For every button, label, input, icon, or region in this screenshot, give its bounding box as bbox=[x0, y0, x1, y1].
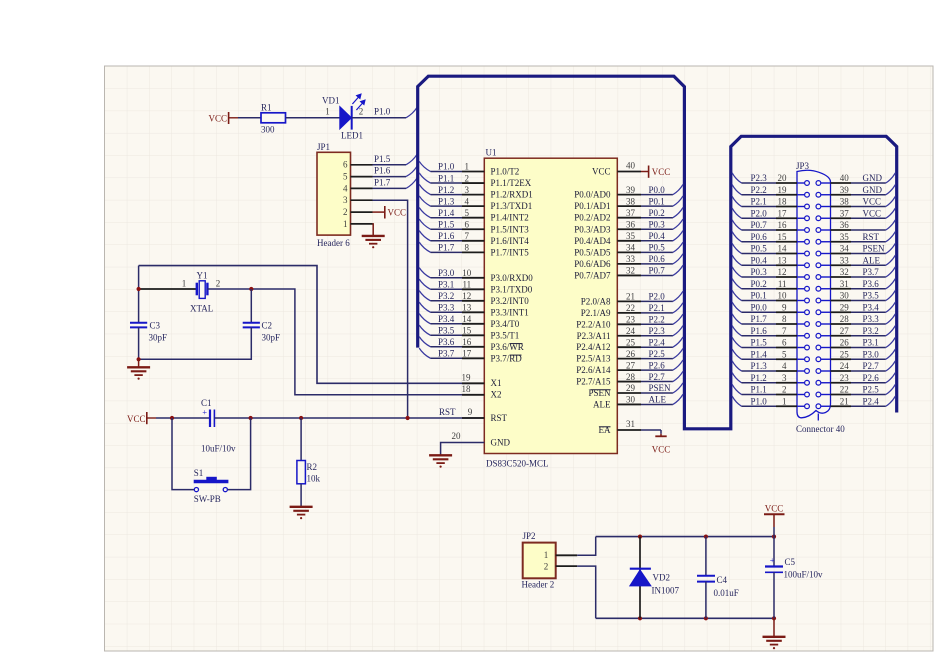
wire U1.11 bbox=[431, 288, 463, 290]
pin U1.21 bbox=[617, 300, 641, 302]
JP3 row 9 contacts bbox=[797, 276, 805, 278]
wire Y1 to C2/X2 bbox=[207, 289, 484, 395]
op-amp/IC U1 DS83C520-MCL body bbox=[484, 158, 617, 453]
node S1 left / rail bbox=[170, 416, 174, 420]
wire bus entry U1.27 bbox=[673, 360, 683, 370]
wire JP3.8 bbox=[742, 323, 777, 325]
wire bus entry JP3.24 bbox=[886, 361, 896, 371]
pin JP3.38 bbox=[831, 206, 852, 208]
svg-text:Connector 40: Connector 40 bbox=[796, 424, 845, 434]
wire JP3.32 bbox=[851, 276, 886, 278]
svg-text:P0.4/AD4: P0.4/AD4 bbox=[574, 236, 611, 246]
svg-text:P1.0: P1.0 bbox=[751, 396, 768, 406]
svg-text:2: 2 bbox=[782, 385, 787, 395]
wire bus entry JP3.25 bbox=[886, 349, 896, 359]
wire JP3.39 bbox=[851, 194, 886, 196]
pin JP2.1 bbox=[556, 554, 578, 556]
svg-text:ALE: ALE bbox=[593, 399, 611, 409]
wire bus entry U1.35 bbox=[673, 231, 683, 241]
svg-text:P1.5/INT3: P1.5/INT3 bbox=[491, 224, 530, 234]
wire U1.21 bbox=[641, 300, 673, 302]
svg-text:RST: RST bbox=[863, 232, 880, 242]
svg-text:1: 1 bbox=[544, 550, 549, 560]
svg-text:16: 16 bbox=[462, 337, 472, 347]
pin U1.6 bbox=[462, 228, 484, 230]
svg-text:P0.6/AD6: P0.6/AD6 bbox=[574, 259, 611, 269]
svg-text:P1.6: P1.6 bbox=[438, 231, 455, 241]
svg-text:39: 39 bbox=[626, 185, 636, 195]
svg-text:IN1007: IN1007 bbox=[652, 586, 680, 596]
wire bus entry JP3.33 bbox=[886, 255, 896, 265]
pin JP3.39 bbox=[831, 194, 852, 196]
svg-text:P3.5/T1: P3.5/T1 bbox=[491, 330, 520, 340]
node Y1 pin1 / C3 bbox=[137, 287, 141, 291]
wire bus entry U1.37 bbox=[673, 208, 683, 218]
wire VCC to R1 bbox=[238, 117, 261, 119]
svg-text:P0.1: P0.1 bbox=[649, 196, 665, 206]
svg-text:P3.2: P3.2 bbox=[438, 291, 454, 301]
pin JP3.13 bbox=[776, 264, 797, 266]
pin JP3.9 bbox=[776, 311, 797, 313]
svg-text:300: 300 bbox=[261, 124, 275, 134]
pin U1.23 bbox=[617, 323, 641, 325]
wire bus entry U1.10 bbox=[419, 268, 430, 278]
svg-text:P1.1: P1.1 bbox=[438, 173, 454, 183]
pin JP3.15 bbox=[776, 241, 797, 243]
pin U1.28 bbox=[617, 381, 641, 383]
svg-text:P3.3: P3.3 bbox=[863, 314, 880, 324]
svg-text:27: 27 bbox=[840, 326, 850, 336]
svg-text:23: 23 bbox=[626, 315, 636, 325]
wire JP3.23 bbox=[851, 382, 886, 384]
pin U1.31 EA bbox=[617, 429, 641, 431]
wire bus entry JP3.21 bbox=[886, 396, 896, 406]
svg-text:25: 25 bbox=[840, 349, 850, 359]
svg-text:P0.5: P0.5 bbox=[751, 244, 768, 254]
wire bus entry U1.36 bbox=[673, 219, 683, 229]
wire U1.1 bbox=[431, 171, 463, 173]
JP3 row 10 contacts bbox=[797, 288, 805, 290]
wire JP1.5 (net P1.6) bbox=[373, 176, 407, 178]
node JP1.3 / rail bbox=[406, 416, 410, 420]
svg-text:P2.5/A13: P2.5/A13 bbox=[576, 354, 611, 364]
wire gnd drop bottom right bbox=[773, 618, 775, 636]
svg-text:P3.5: P3.5 bbox=[438, 326, 455, 336]
svg-text:P1.5: P1.5 bbox=[438, 219, 455, 229]
svg-text:P0.3: P0.3 bbox=[751, 267, 768, 277]
wire bus entry JP3.12 bbox=[732, 267, 741, 277]
ground U1.20 bbox=[429, 455, 452, 467]
svg-text:26: 26 bbox=[840, 338, 850, 348]
svg-text:P0.1: P0.1 bbox=[751, 291, 767, 301]
wire JP3.34 bbox=[851, 253, 886, 255]
bus (U1 and JP3 harness) bbox=[418, 76, 897, 429]
wire bus entry U1.17 bbox=[419, 348, 430, 358]
wire R2 to gnd bbox=[300, 484, 302, 507]
svg-text:36: 36 bbox=[626, 219, 636, 229]
svg-text:10uF/10v: 10uF/10v bbox=[201, 443, 236, 453]
wire JP3.6 bbox=[742, 347, 777, 349]
pin U1.9 RST bbox=[462, 417, 484, 419]
wire JP3.21 bbox=[851, 405, 886, 407]
wire bus entry JP3.30 bbox=[886, 290, 896, 300]
wire bus entry U1.5 bbox=[419, 208, 430, 218]
pin U1.12 bbox=[462, 300, 484, 302]
svg-text:VCC: VCC bbox=[652, 445, 671, 455]
pin U1.33 bbox=[617, 263, 641, 265]
svg-text:P0.7/AD7: P0.7/AD7 bbox=[574, 270, 611, 280]
wire bus entry JP3.22 bbox=[886, 384, 896, 394]
svg-text:P1.6: P1.6 bbox=[751, 326, 768, 336]
svg-text:P2.3: P2.3 bbox=[751, 173, 768, 183]
svg-text:P0.2: P0.2 bbox=[649, 208, 665, 218]
svg-text:P0.0: P0.0 bbox=[649, 185, 666, 195]
wire bus entry JP3.8 bbox=[732, 314, 741, 324]
svg-text:37: 37 bbox=[626, 208, 636, 218]
pin JP3.3 bbox=[776, 382, 797, 384]
svg-text:R2: R2 bbox=[307, 462, 318, 472]
wire bus entry JP3.36 bbox=[886, 220, 896, 230]
wire JP3.14 bbox=[742, 253, 777, 255]
pin JP3.40 bbox=[831, 182, 852, 184]
wire U1.8 bbox=[431, 251, 463, 253]
pin JP1.2 bbox=[351, 211, 373, 213]
node C3/C2 gnd rail bbox=[137, 357, 141, 361]
wire U1.23 bbox=[641, 323, 673, 325]
pin JP3.26 bbox=[831, 347, 852, 349]
pin U1.10 bbox=[462, 277, 484, 279]
svg-text:P2.6: P2.6 bbox=[863, 373, 880, 383]
capacitor C3 bbox=[130, 322, 147, 324]
svg-text:8: 8 bbox=[465, 243, 470, 253]
svg-text:P1.0/T2: P1.0/T2 bbox=[491, 167, 520, 177]
wire bus entry JP3.4 bbox=[732, 361, 741, 371]
svg-text:P0.0: P0.0 bbox=[751, 302, 768, 312]
svg-text:22: 22 bbox=[840, 385, 849, 395]
svg-text:+: + bbox=[202, 407, 207, 417]
svg-text:18: 18 bbox=[462, 384, 472, 394]
svg-text:P1.6: P1.6 bbox=[374, 166, 391, 176]
wire bus entry U1.29 bbox=[673, 383, 683, 393]
wire bus entry U1.14 bbox=[419, 314, 430, 324]
pin U1.38 bbox=[617, 205, 641, 207]
wire JP3.18 bbox=[742, 206, 777, 208]
wire bus entry JP3.17 bbox=[732, 208, 741, 218]
wire bus entry U1.26 bbox=[673, 348, 683, 358]
wire JP3.20 bbox=[742, 182, 777, 184]
wire bus entry JP3.16 bbox=[732, 220, 741, 230]
pin JP3.10 bbox=[776, 300, 797, 302]
pin U1.11 bbox=[462, 288, 484, 290]
svg-text:5: 5 bbox=[343, 172, 348, 182]
svg-text:13: 13 bbox=[778, 255, 788, 265]
wire JP3.30 bbox=[851, 300, 886, 302]
wire JP1.6 (net P1.5) bbox=[373, 164, 407, 166]
wire bus entry JP3.9 bbox=[732, 302, 741, 312]
node VD2 top bbox=[638, 535, 642, 539]
wire bus entry U1.16 bbox=[419, 337, 430, 347]
svg-text:X2: X2 bbox=[491, 390, 502, 400]
wire JP3.27 bbox=[851, 335, 886, 337]
wire U1.33 bbox=[641, 263, 673, 265]
JP3 row 19 contacts bbox=[797, 394, 805, 396]
pin U1.36 bbox=[617, 228, 641, 230]
wire U1.5 bbox=[431, 217, 463, 219]
svg-text:VCC: VCC bbox=[765, 503, 784, 513]
svg-text:PSEN: PSEN bbox=[863, 244, 886, 254]
wire bus entry JP3.38 bbox=[886, 196, 896, 206]
svg-text:P3.7: P3.7 bbox=[438, 349, 455, 359]
node R2 / rail bbox=[299, 416, 303, 420]
svg-text:0.01uF: 0.01uF bbox=[714, 588, 739, 598]
svg-text:GND: GND bbox=[863, 185, 883, 195]
wire JP3.36 bbox=[851, 229, 886, 231]
svg-text:29: 29 bbox=[840, 302, 850, 312]
svg-text:2: 2 bbox=[343, 207, 348, 217]
svg-text:8: 8 bbox=[782, 314, 787, 324]
wire bus entry JP3.3 bbox=[732, 373, 741, 383]
wire U1.35 bbox=[641, 240, 673, 242]
svg-text:VCC: VCC bbox=[863, 208, 882, 218]
wire JP1.4 (net P1.7) bbox=[373, 187, 407, 189]
svg-text:VCC: VCC bbox=[208, 113, 227, 123]
diode VD2 bbox=[639, 537, 641, 619]
pin JP3.6 bbox=[776, 347, 797, 349]
svg-text:P3.3: P3.3 bbox=[438, 303, 455, 313]
svg-text:P0.3/AD3: P0.3/AD3 bbox=[574, 224, 611, 234]
svg-text:P1.6/INT4: P1.6/INT4 bbox=[491, 236, 530, 246]
svg-text:P2.0: P2.0 bbox=[751, 208, 768, 218]
wire bus entry U1.25 bbox=[673, 337, 683, 347]
svg-text:32: 32 bbox=[626, 266, 635, 276]
wire U1.38 bbox=[641, 205, 673, 207]
svg-text:P3.1: P3.1 bbox=[863, 338, 879, 348]
svg-text:1: 1 bbox=[325, 106, 330, 116]
pin JP3.28 bbox=[831, 323, 852, 325]
wire bus entry JP3.10 bbox=[732, 290, 741, 300]
wire U1.22 bbox=[641, 312, 673, 314]
wire U1.32 bbox=[641, 274, 673, 276]
wire bus entry JP3.39 bbox=[886, 185, 896, 195]
pin JP1.6 bbox=[351, 164, 373, 166]
JP3 row 7 contacts bbox=[797, 253, 805, 255]
pin JP3.17 bbox=[776, 217, 797, 219]
svg-text:26: 26 bbox=[626, 349, 636, 359]
svg-text:34: 34 bbox=[840, 244, 850, 254]
pin JP1.3 bbox=[351, 199, 373, 201]
svg-text:C2: C2 bbox=[262, 320, 273, 330]
wire bus entry JP3.11 bbox=[732, 279, 741, 289]
wire U1.6 bbox=[431, 228, 463, 230]
svg-text:P2.0/A8: P2.0/A8 bbox=[581, 296, 611, 306]
svg-text:P0.7: P0.7 bbox=[649, 266, 666, 276]
svg-text:1: 1 bbox=[465, 162, 470, 172]
wire bus entry U1.3 bbox=[419, 184, 430, 194]
wire C2 top bbox=[250, 289, 252, 323]
pin JP3.2 bbox=[776, 394, 797, 396]
svg-text:P3.1/TXD0: P3.1/TXD0 bbox=[491, 284, 533, 294]
svg-text:VCC: VCC bbox=[592, 166, 611, 176]
svg-text:P2.6/A14: P2.6/A14 bbox=[576, 365, 611, 375]
pin U1.13 bbox=[462, 311, 484, 313]
JP3 row 13 contacts bbox=[797, 323, 805, 325]
wire C1 to R2 to RST bbox=[214, 417, 484, 419]
pin U1.26 bbox=[617, 358, 641, 360]
svg-text:P1.0: P1.0 bbox=[438, 162, 455, 172]
svg-text:P1.5: P1.5 bbox=[374, 154, 391, 164]
svg-text:P3.4: P3.4 bbox=[863, 302, 880, 312]
svg-text:4: 4 bbox=[343, 183, 348, 193]
svg-text:P3.0: P3.0 bbox=[438, 268, 455, 278]
pin JP3.1 bbox=[776, 405, 797, 407]
wire JP3.1 bbox=[742, 405, 777, 407]
wire U1.12 bbox=[431, 300, 463, 302]
svg-text:DS83C520-MCL: DS83C520-MCL bbox=[486, 458, 549, 468]
svg-text:P0.5/AD5: P0.5/AD5 bbox=[574, 247, 611, 257]
wire bus entry JP3.18 bbox=[732, 196, 741, 206]
svg-text:Header 2: Header 2 bbox=[522, 580, 555, 590]
wire bus entry U1.34 bbox=[673, 242, 683, 252]
svg-text:VCC: VCC bbox=[863, 197, 882, 207]
svg-text:10k: 10k bbox=[307, 474, 321, 484]
svg-text:14: 14 bbox=[778, 244, 788, 254]
switch S1 bbox=[172, 418, 194, 490]
node C5/gnd bottom bbox=[772, 616, 776, 620]
svg-text:3: 3 bbox=[343, 195, 348, 205]
svg-text:R1: R1 bbox=[261, 102, 272, 112]
svg-text:21: 21 bbox=[626, 292, 635, 302]
pin JP3.29 bbox=[831, 311, 852, 313]
wire U1.13 bbox=[431, 311, 463, 313]
svg-text:P1.5: P1.5 bbox=[751, 338, 768, 348]
svg-text:P0.2/AD2: P0.2/AD2 bbox=[574, 213, 610, 223]
svg-text:17: 17 bbox=[778, 208, 788, 218]
pin U1.27 bbox=[617, 369, 641, 371]
wire rail to R2 bbox=[300, 418, 302, 461]
wire Y1 left bbox=[139, 288, 197, 290]
pin U1.30 bbox=[617, 403, 641, 405]
node C4 bottom bbox=[704, 616, 708, 620]
wire JP3.7 bbox=[742, 335, 777, 337]
wire JP1.1 to ground bbox=[372, 224, 375, 236]
pin JP1.5 bbox=[351, 176, 373, 178]
svg-text:P1.2/RXD1: P1.2/RXD1 bbox=[491, 190, 533, 200]
svg-text:100uF/10v: 100uF/10v bbox=[784, 569, 824, 579]
svg-text:13: 13 bbox=[462, 303, 472, 313]
svg-text:RST: RST bbox=[491, 413, 508, 423]
resistor R1 bbox=[261, 113, 286, 123]
svg-text:P1.7: P1.7 bbox=[374, 178, 391, 188]
wire XTAL top rail to X1 bbox=[139, 266, 485, 384]
wire JP3.29 bbox=[851, 311, 886, 313]
wire JP3.40 bbox=[851, 182, 886, 184]
pin JP2.2 bbox=[556, 565, 578, 567]
svg-text:32: 32 bbox=[840, 267, 849, 277]
svg-text:P1.4/INT2: P1.4/INT2 bbox=[491, 213, 529, 223]
wire bus entry JP3.19 bbox=[732, 185, 741, 195]
wire bus entry JP3.20 bbox=[732, 173, 741, 183]
svg-text:3: 3 bbox=[782, 373, 787, 383]
wire bus entry P1.5 bbox=[406, 155, 417, 165]
svg-text:2: 2 bbox=[465, 173, 470, 183]
wire U1.31 EA to VCC bbox=[641, 429, 661, 431]
pin JP3.18 bbox=[776, 206, 797, 208]
wire JP3.33 bbox=[851, 264, 886, 266]
pin U1.18 X2 bbox=[462, 394, 484, 396]
wire bus entry U1.30 bbox=[673, 394, 683, 404]
wire C3 bottom bbox=[138, 327, 140, 359]
svg-text:2: 2 bbox=[216, 279, 221, 289]
pin U1.39 bbox=[617, 194, 641, 196]
pin JP3.5 bbox=[776, 358, 797, 360]
svg-text:VD2: VD2 bbox=[653, 572, 671, 582]
wire bus entry JP3.28 bbox=[886, 314, 896, 324]
svg-text:P0.6: P0.6 bbox=[751, 232, 768, 242]
svg-text:12: 12 bbox=[462, 291, 471, 301]
capacitor C1 bbox=[209, 410, 211, 428]
svg-text:P2.1: P2.1 bbox=[751, 197, 767, 207]
pin JP3.8 bbox=[776, 323, 797, 325]
pin U1.5 bbox=[462, 217, 484, 219]
svg-text:P2.7: P2.7 bbox=[863, 361, 880, 371]
svg-text:P2.2: P2.2 bbox=[751, 185, 767, 195]
svg-text:30: 30 bbox=[840, 291, 850, 301]
svg-text:33: 33 bbox=[626, 254, 636, 264]
svg-text:P3.5: P3.5 bbox=[863, 291, 880, 301]
pin JP3.7 bbox=[776, 335, 797, 337]
svg-text:30: 30 bbox=[626, 395, 636, 405]
svg-text:P1.1/T2EX: P1.1/T2EX bbox=[491, 178, 532, 188]
wire U1.25 bbox=[641, 346, 673, 348]
svg-text:4: 4 bbox=[465, 196, 470, 206]
ground bottom right bbox=[763, 637, 786, 649]
svg-text:P1.2: P1.2 bbox=[751, 373, 767, 383]
pin U1.34 bbox=[617, 251, 641, 253]
svg-text:VD1: VD1 bbox=[322, 96, 340, 106]
wire bus entry U1.21 bbox=[673, 291, 683, 301]
pin U1.2 bbox=[462, 182, 484, 184]
wire JP3.3 bbox=[742, 382, 777, 384]
pin JP3.24 bbox=[831, 370, 852, 372]
ground crystal caps bbox=[127, 367, 150, 379]
svg-text:SW-PB: SW-PB bbox=[194, 494, 221, 504]
svg-text:P1.7: P1.7 bbox=[751, 314, 768, 324]
svg-text:19: 19 bbox=[462, 373, 472, 383]
wire U1.15 bbox=[431, 334, 463, 336]
wire U1.16 bbox=[431, 346, 463, 348]
svg-text:Y1: Y1 bbox=[197, 271, 208, 281]
svg-text:5: 5 bbox=[465, 208, 470, 218]
svg-text:3: 3 bbox=[465, 185, 470, 195]
wire C3 branch vertical bbox=[138, 266, 140, 323]
wire bus entry JP3.26 bbox=[886, 337, 896, 347]
wire bus entry JP3.27 bbox=[886, 326, 896, 336]
pin U1.35 bbox=[617, 240, 641, 242]
pin U1.8 bbox=[462, 251, 484, 253]
svg-text:P3.3/INT1: P3.3/INT1 bbox=[491, 307, 529, 317]
svg-text:RST: RST bbox=[439, 407, 456, 417]
svg-text:X1: X1 bbox=[491, 378, 502, 388]
wire reset rail bbox=[156, 417, 210, 419]
wire U1.28 bbox=[641, 381, 673, 383]
svg-text:16: 16 bbox=[778, 220, 788, 230]
wire JP1.3 to RST rail bbox=[373, 200, 408, 418]
svg-text:40: 40 bbox=[626, 161, 636, 171]
wire JP3.11 bbox=[742, 288, 777, 290]
svg-text:30pF: 30pF bbox=[149, 332, 168, 342]
capacitor C4 bbox=[705, 537, 707, 576]
wire bus entry U1.38 bbox=[673, 196, 683, 206]
